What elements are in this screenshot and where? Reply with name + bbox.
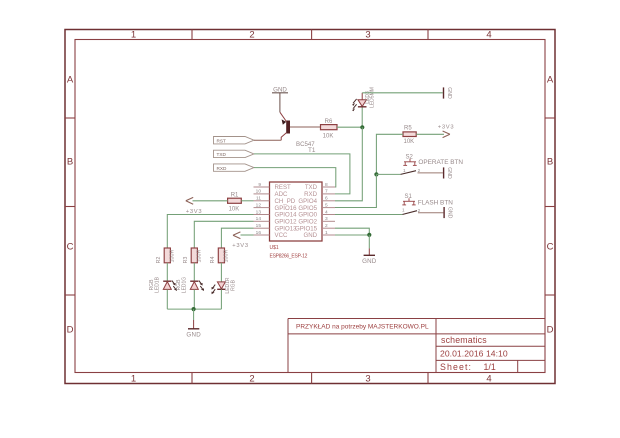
svg-text:4: 4 bbox=[486, 374, 491, 385]
wire node to S2 bbox=[376, 173, 400, 175]
svg-text:C: C bbox=[547, 242, 554, 253]
svg-text:3: 3 bbox=[325, 216, 328, 222]
svg-text:100R: 100R bbox=[169, 249, 175, 262]
svg-text:12: 12 bbox=[256, 202, 262, 208]
supply +3V3 (left of VCC pin 16) bbox=[232, 232, 253, 249]
LED LED1G bbox=[176, 277, 204, 294]
svg-text:B: B bbox=[67, 157, 73, 168]
svg-text:1: 1 bbox=[131, 374, 136, 385]
svg-text:R5: R5 bbox=[404, 126, 412, 132]
svg-text:OPERATE BTN: OPERATE BTN bbox=[418, 159, 463, 166]
IC pin numbers right bbox=[325, 182, 328, 236]
svg-text:RXD: RXD bbox=[217, 166, 228, 171]
ground GND (right of S2, rotated) bbox=[444, 167, 452, 179]
wire RST to T1 emitter bbox=[254, 139, 281, 141]
svg-text:4: 4 bbox=[486, 30, 491, 41]
node junction R6/LED3/GPIO4 bbox=[360, 125, 364, 129]
supply +3V3 (left of R1) bbox=[186, 197, 203, 215]
svg-text:1/1: 1/1 bbox=[484, 362, 496, 372]
svg-text:GND: GND bbox=[447, 207, 453, 219]
svg-text:RGB: RGB bbox=[231, 279, 237, 291]
svg-text:Sheet:: Sheet: bbox=[440, 362, 472, 372]
svg-text:20.01.2016 14:10: 20.01.2016 14:10 bbox=[440, 349, 508, 359]
ground GND top (above T1) bbox=[272, 86, 288, 112]
svg-text:R2: R2 bbox=[156, 257, 162, 264]
svg-text:1: 1 bbox=[131, 30, 136, 41]
svg-text:R3: R3 bbox=[183, 257, 189, 264]
svg-text:A: A bbox=[547, 75, 554, 86]
wire node to GPIO4 pin 6 bbox=[335, 127, 362, 201]
IC pin names left bbox=[275, 184, 298, 239]
wire S1 to GND bbox=[418, 212, 443, 214]
resistor R3 bbox=[183, 248, 203, 263]
IC pin stubs right bbox=[322, 187, 335, 235]
wire R1 to +3V3 bbox=[193, 200, 228, 202]
wire pin 15 GPIO13 to R4 bbox=[221, 228, 253, 248]
svg-text:GND: GND bbox=[446, 167, 452, 179]
wire GPIO0 pin 4 to S1 bbox=[335, 214, 402, 216]
svg-text:6: 6 bbox=[325, 196, 328, 202]
resistor R6 bbox=[321, 119, 338, 139]
wire R5 right to +3V3 bbox=[416, 133, 444, 135]
svg-text:1: 1 bbox=[325, 230, 328, 236]
frame inner border bbox=[75, 40, 545, 373]
connector flag RXD bbox=[214, 164, 255, 171]
svg-text:10K: 10K bbox=[323, 133, 334, 139]
wire R3 to LED1G bbox=[193, 263, 195, 281]
resistor R1 bbox=[228, 192, 242, 212]
wire LED bottoms to common node bbox=[167, 289, 221, 309]
svg-text:10: 10 bbox=[256, 189, 262, 195]
wire node to GPIO5 pin 5 bbox=[335, 174, 376, 207]
LED LED1B bbox=[149, 276, 177, 293]
svg-text:D: D bbox=[547, 325, 554, 336]
LED LED3 bbox=[352, 87, 375, 127]
svg-text:3: 3 bbox=[365, 30, 370, 41]
ground GND (below LEDs) bbox=[186, 309, 201, 339]
wire pin 1 GND to node bbox=[335, 234, 369, 236]
svg-text:R1: R1 bbox=[231, 192, 239, 198]
switch S1 FLASH BTN bbox=[402, 194, 453, 215]
wire R5 left to S2 node bbox=[376, 134, 403, 174]
svg-text:LED5MM: LED5MM bbox=[369, 87, 375, 108]
svg-text:11: 11 bbox=[256, 196, 261, 202]
svg-text:13: 13 bbox=[256, 209, 262, 215]
svg-text:LED1B: LED1B bbox=[155, 276, 161, 293]
resistor R5 bbox=[403, 126, 416, 145]
frame column ticks bbox=[65, 30, 555, 384]
svg-text:100R: 100R bbox=[224, 249, 230, 262]
svg-text:2: 2 bbox=[249, 374, 254, 385]
svg-text:RST: RST bbox=[217, 138, 227, 143]
svg-text:GND: GND bbox=[303, 232, 317, 239]
svg-text:B: B bbox=[547, 157, 553, 168]
svg-text:5: 5 bbox=[325, 202, 328, 208]
switch S2 OPERATE BTN bbox=[401, 154, 464, 174]
svg-text:S2: S2 bbox=[406, 154, 414, 160]
svg-text:GND: GND bbox=[362, 258, 377, 265]
svg-text:4: 4 bbox=[325, 209, 328, 215]
svg-text:+3V3: +3V3 bbox=[232, 243, 249, 249]
connector flag TXD bbox=[214, 150, 255, 157]
frame column labels bbox=[131, 30, 492, 385]
wire RXD to pin 8 TXD bbox=[254, 168, 336, 187]
svg-text:schematics: schematics bbox=[441, 335, 487, 345]
IC pin numbers left bbox=[256, 182, 262, 236]
svg-text:+3V3: +3V3 bbox=[438, 125, 455, 131]
ground GND (below ESP) bbox=[362, 235, 377, 265]
svg-text:FLASH BTN: FLASH BTN bbox=[418, 200, 454, 207]
svg-text:R6: R6 bbox=[325, 119, 333, 125]
node junction GND net bbox=[367, 233, 371, 237]
wire R6 to node bbox=[337, 126, 362, 128]
resistor R4 bbox=[210, 248, 230, 263]
LED LED1R bbox=[212, 277, 237, 294]
wire R4 to LED1R bbox=[220, 263, 222, 282]
wire TXD to pin 7 RXD bbox=[254, 154, 350, 194]
svg-text:3: 3 bbox=[365, 374, 370, 385]
ground GND (right of LED3, rotated) bbox=[444, 87, 452, 99]
svg-text:1: 1 bbox=[402, 208, 405, 213]
svg-text:15: 15 bbox=[256, 223, 262, 229]
svg-text:TXD: TXD bbox=[217, 152, 227, 157]
wire pin 14 GPIO12 to R3 bbox=[194, 221, 253, 248]
svg-text:C: C bbox=[67, 242, 74, 253]
wire pin 2 GPIO15 to GND node bbox=[335, 228, 369, 235]
svg-text:7: 7 bbox=[325, 189, 328, 195]
svg-text:VCC: VCC bbox=[275, 232, 288, 239]
svg-text:2: 2 bbox=[325, 223, 328, 229]
svg-text:9: 9 bbox=[258, 182, 261, 188]
svg-text:10K: 10K bbox=[404, 139, 415, 145]
svg-text:R4: R4 bbox=[210, 257, 216, 264]
svg-text:LED1G: LED1G bbox=[182, 277, 188, 294]
svg-text:1: 1 bbox=[403, 168, 406, 173]
svg-text:14: 14 bbox=[256, 216, 262, 222]
frame row labels bbox=[67, 75, 554, 336]
title block frame bbox=[288, 319, 545, 373]
svg-text:U$1: U$1 bbox=[270, 245, 279, 251]
IC pin names right bbox=[295, 184, 318, 239]
svg-text:A: A bbox=[67, 75, 74, 86]
wire S2 to GND bbox=[418, 172, 443, 174]
connector flag RST bbox=[214, 137, 255, 144]
title block texts bbox=[296, 323, 508, 372]
svg-text:S1: S1 bbox=[405, 194, 413, 200]
wire R1 to pin 11 CH_PD bbox=[241, 200, 253, 202]
svg-text:100R: 100R bbox=[196, 249, 202, 262]
svg-text:8: 8 bbox=[325, 182, 328, 188]
wire LED3 to GND bbox=[362, 92, 443, 94]
frame outer border bbox=[65, 30, 555, 384]
wire pin 13 GPIO14 to R2 bbox=[167, 215, 253, 249]
svg-text:2: 2 bbox=[249, 30, 254, 41]
node junction S2/R5/GPIO5 bbox=[374, 172, 378, 176]
svg-text:D: D bbox=[67, 325, 74, 336]
svg-text:ESP8266_ESP-12: ESP8266_ESP-12 bbox=[270, 253, 308, 259]
resistor R2 bbox=[156, 248, 176, 263]
op-amp U1 ESP8266 ESP-12 box bbox=[270, 182, 323, 259]
wire R2 to LED1B bbox=[166, 263, 168, 281]
transistor Q1 BC547 T1 bbox=[280, 112, 321, 154]
ground GND (right of S1, rotated) bbox=[444, 207, 452, 219]
node junction LED common bbox=[192, 307, 196, 311]
svg-text:T1: T1 bbox=[308, 147, 316, 154]
svg-text:PRZYKŁAD na potrzeby MAJSTERKO: PRZYKŁAD na potrzeby MAJSTERKOWO.PL bbox=[296, 323, 429, 330]
svg-text:16: 16 bbox=[256, 230, 262, 236]
svg-text:GND: GND bbox=[446, 87, 452, 99]
supply +3V3 (right of R5) bbox=[438, 125, 455, 138]
IC pin stubs left bbox=[254, 187, 270, 235]
svg-text:10K: 10K bbox=[229, 206, 240, 212]
svg-text:GND: GND bbox=[186, 332, 201, 339]
